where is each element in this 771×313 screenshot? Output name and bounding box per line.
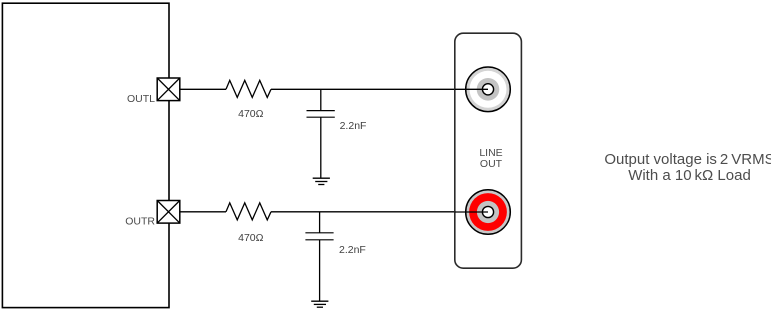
svg-text:With a 10 kΩ Load: With a 10 kΩ Load — [628, 167, 751, 184]
wire resistor to jack L center — [271, 88, 488, 90]
ground (right channel) — [311, 301, 328, 307]
RCA jack J2 red (right channel) — [455, 190, 511, 235]
IC block U1 — [2, 3, 169, 307]
RCA line-out panel — [455, 33, 522, 268]
ground (left channel) — [313, 178, 330, 184]
note text: output voltage — [604, 151, 771, 184]
svg-text:OUTL: OUTL — [127, 93, 155, 105]
pin OUTR terminal box — [157, 201, 180, 224]
svg-text:2.2nF: 2.2nF — [339, 244, 366, 256]
svg-text:OUT: OUT — [480, 158, 503, 170]
svg-text:470Ω: 470Ω — [238, 232, 264, 244]
resistor R1 470 ohm (left channel) — [226, 80, 271, 97]
pin OUTL terminal box — [157, 78, 180, 101]
svg-text:OUTR: OUTR — [125, 216, 155, 228]
capacitor C1 2.2nF (left channel) — [307, 89, 335, 178]
label LINE OUT — [479, 147, 502, 170]
svg-text:470Ω: 470Ω — [238, 108, 264, 120]
svg-text:Output voltage is 2 VRMS: Output voltage is 2 VRMS — [604, 151, 771, 168]
wire OUTR pin to resistor — [180, 211, 226, 213]
svg-text:2.2nF: 2.2nF — [340, 120, 367, 132]
wire resistor to jack R center — [271, 211, 488, 213]
capacitor C2 2.2nF (right channel) — [305, 212, 333, 301]
RCA jack J1 white (left channel) — [455, 67, 511, 112]
resistor R2 470 ohm (right channel) — [226, 203, 271, 220]
wire OUTL pin to resistor — [180, 88, 226, 90]
